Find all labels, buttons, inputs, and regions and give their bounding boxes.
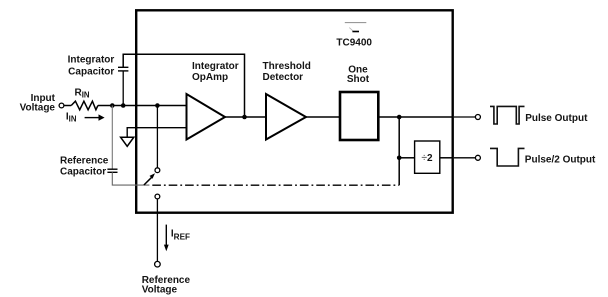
svg-text:Reference: Reference [60, 156, 109, 167]
chip outline box TC9400 [136, 10, 453, 212]
svg-text:÷2: ÷2 [421, 153, 433, 164]
wire branch down to divider [398, 117, 400, 185]
svg-text:IIN: IIN [66, 111, 77, 123]
wire box edge to pulse output terminal [454, 116, 475, 118]
wire resistor to op-amp [98, 105, 187, 107]
node pulse output branch [397, 115, 402, 120]
svg-text:Voltage: Voltage [142, 285, 178, 296]
ground [121, 137, 134, 146]
node at reference capacitor branch [110, 103, 115, 108]
wire feedback loop capacitor to op-amp output [123, 54, 244, 117]
node divider input [397, 156, 402, 161]
comparator threshold detector [266, 94, 306, 140]
wire input node down to reference capacitor [111, 106, 113, 170]
wire reference capacitor to switch pivot [112, 172, 149, 185]
wire op-amp noninverting input [127, 128, 186, 137]
wire node to divider [399, 157, 414, 159]
op-amp U1 [187, 94, 226, 140]
svg-text:TC9400: TC9400 [336, 38, 372, 49]
reference capacitor [107, 169, 117, 172]
divide-by-2 block [415, 141, 440, 173]
one shot block [340, 92, 378, 140]
wire lower switch contact to reference terminal [156, 199, 158, 261]
switch lever with arrow [144, 173, 155, 185]
pulse/2 waveform [490, 148, 525, 166]
svg-text:Capacitor: Capacitor [60, 166, 106, 177]
svg-text:IREF: IREF [171, 228, 190, 241]
switch contact lower [155, 194, 160, 199]
logo mark [345, 23, 367, 33]
resistor RIN [71, 101, 98, 110]
pulse/2 output terminal [475, 155, 480, 160]
wire one shot output to box edge [379, 116, 453, 118]
node at switch branch [155, 103, 160, 108]
svg-text:Integrator: Integrator [68, 55, 115, 66]
pulse output terminal [475, 115, 480, 120]
wire box edge to pulse/2 output terminal [454, 157, 475, 159]
wire threshold detector to one shot [306, 116, 340, 118]
wire op-amp output to threshold detector [225, 116, 266, 118]
wire input to resistor [64, 105, 71, 107]
svg-text:Integrator: Integrator [192, 61, 239, 72]
wire divider output to box edge [440, 157, 453, 159]
wire capacitor bottom to input node [122, 71, 124, 106]
switch contact upper [155, 168, 160, 173]
control line dash-dot [152, 184, 399, 186]
svg-text:Threshold: Threshold [263, 61, 311, 72]
svg-text:RIN: RIN [75, 87, 90, 99]
integrator capacitor [118, 67, 128, 71]
pulse output waveform [490, 106, 525, 124]
svg-text:Pulse/2 Output: Pulse/2 Output [525, 154, 596, 165]
svg-text:Shot: Shot [347, 74, 370, 85]
svg-text:Capacitor: Capacitor [68, 66, 114, 77]
reference voltage terminal [155, 261, 161, 267]
svg-text:Detector: Detector [263, 72, 304, 83]
svg-text:Voltage: Voltage [20, 103, 56, 114]
svg-text:OpAmp: OpAmp [192, 72, 228, 83]
input terminal [59, 103, 64, 108]
label IREF with arrow [164, 225, 169, 252]
node feedback junction [242, 115, 247, 120]
wire node to upper switch contact [156, 106, 158, 168]
node at integrator capacitor branch [121, 103, 126, 108]
svg-text:Pulse Output: Pulse Output [525, 113, 588, 124]
